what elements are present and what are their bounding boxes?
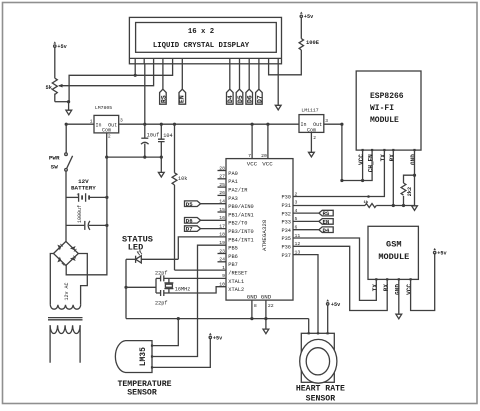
svg-text:100E: 100E (306, 40, 320, 46)
wire P31 RX line with series resistor (293, 205, 365, 207)
capacitor C1 10uf (141, 124, 159, 157)
wire /RESET pin1 (175, 269, 227, 271)
svg-text:+5v: +5v (304, 14, 314, 20)
wiper arrowhead (58, 84, 63, 88)
svg-text:P32: P32 (281, 211, 291, 217)
wire LED to PB4 pin18 (178, 237, 226, 259)
svg-text:8: 8 (254, 303, 257, 309)
wire pot bottom to ground node (55, 101, 69, 103)
capacitor C6 1000uf (66, 205, 107, 230)
svg-text:P34: P34 (281, 228, 291, 234)
wire ESP VCC pin (362, 150, 364, 180)
svg-text:26: 26 (219, 190, 225, 196)
wire LCD RS pin down to tag (162, 64, 164, 89)
svg-text:TX: TX (380, 154, 387, 162)
wire crystal ground branch (126, 286, 156, 288)
svg-text:D5: D5 (237, 95, 244, 103)
wire ESP RX vertical (392, 150, 394, 205)
pin 8 GND wire (251, 300, 253, 319)
net tag D6 (LCD) (246, 89, 254, 104)
wire LED anode down to ground rail (125, 259, 127, 318)
svg-text:P35: P35 (281, 236, 291, 242)
svg-text:2k2: 2k2 (407, 187, 413, 196)
net tag EN (to P33 pin5) (293, 219, 333, 226)
status LED D1 (122, 234, 178, 263)
svg-text:10k: 10k (178, 176, 187, 182)
capacitor C5 22pf (bottom) (155, 290, 167, 306)
svg-text:WI-FI: WI-FI (370, 104, 394, 113)
svg-text:LM35: LM35 (139, 347, 148, 366)
svg-text:+5v: +5v (331, 302, 341, 308)
net tag D4 (to P34 pin6) (293, 227, 333, 234)
svg-text:12v AC: 12v AC (64, 282, 70, 300)
svg-text:27: 27 (219, 174, 225, 180)
wire LCD LED- pin16 down (277, 64, 279, 106)
svg-text:VCC: VCC (406, 284, 413, 295)
svg-text:1000uf: 1000uf (77, 205, 83, 223)
svg-text:LIQUID CRYSTAL DISPLAY: LIQUID CRYSTAL DISPLAY (153, 42, 250, 50)
wire ground rail (bottom) (126, 318, 309, 320)
svg-text:D7: D7 (186, 226, 193, 233)
net tag RS (to P32 pin4) (293, 210, 333, 217)
ESP pin nubs (362, 149, 364, 151)
svg-text:GND: GND (247, 294, 258, 301)
svg-text:PB3/INT0: PB3/INT0 (228, 229, 253, 235)
node 1000uf rail right (105, 224, 108, 227)
node RX tee (392, 204, 395, 207)
svg-text:TX: TX (372, 284, 379, 292)
wire LM1117 Out to ESP vcc rail (324, 124, 372, 180)
svg-text:2: 2 (313, 135, 316, 141)
wire LM1117 Com to ground (310, 132, 312, 152)
wire node to ground (68, 102, 70, 111)
svg-text:VCC: VCC (358, 154, 365, 165)
svg-text:CH_EN: CH_EN (368, 154, 375, 172)
net tag EN (LCD) (179, 89, 186, 104)
net tag D7 (LCD) (256, 89, 264, 104)
wire LM35 pin2 signal to PB5 pin19 (152, 245, 226, 356)
wire com to transformer (66, 157, 107, 275)
svg-text:In: In (96, 123, 102, 129)
ground (GSM) (396, 314, 402, 319)
wire bridge right to transformer (78, 254, 87, 305)
wire ESP GND pin down (414, 150, 416, 205)
svg-text:7: 7 (248, 153, 251, 159)
power +5v (pot) (54, 41, 68, 50)
ground (LM1117) (309, 152, 315, 157)
svg-text:16 x 2: 16 x 2 (188, 28, 214, 36)
svg-text:D6: D6 (247, 95, 254, 103)
potentiometer R1 5k (46, 47, 58, 101)
module U4 ESP8266 WI-FI (356, 71, 421, 172)
wire GSM GND (398, 279, 400, 314)
svg-text:Com: Com (102, 128, 111, 134)
node ESP GND tee (413, 174, 416, 177)
svg-text:24: 24 (219, 257, 225, 263)
right pin labels (281, 191, 300, 258)
svg-text:D4: D4 (323, 227, 330, 234)
svg-text:VCC: VCC (262, 160, 273, 167)
pin 26 PA3 (218, 194, 227, 196)
svg-text:BATTERY: BATTERY (71, 185, 96, 192)
capacitor C4 22pf (top) (155, 271, 167, 282)
microcontroller U1 ATMEGA328 (226, 159, 293, 301)
wire heart sensor gnd pin (308, 319, 310, 334)
node pin8 gnd (250, 317, 253, 320)
svg-text:+5v: +5v (213, 335, 223, 341)
capacitor C2 104 (158, 124, 173, 157)
wire LM35 pin3 to +5v (152, 339, 210, 368)
resistor R3 10k (reset pull-up) (172, 124, 187, 270)
node 3v3 corner (340, 179, 343, 182)
wire LCD EN pin down to tag (181, 64, 183, 89)
svg-text:RX: RX (389, 154, 396, 162)
svg-text:2: 2 (108, 133, 111, 139)
transformer T1 (48, 282, 83, 362)
power +5v (LM35) (209, 333, 223, 342)
svg-text:104: 104 (163, 133, 172, 139)
svg-text:XTAL2: XTAL2 (228, 287, 244, 293)
bridge rectifier BR1 (54, 241, 79, 265)
svg-text:PA2/IR: PA2/IR (228, 188, 248, 194)
wire ESP TX to P30 (293, 150, 384, 196)
svg-text:PB5: PB5 (228, 246, 238, 252)
svg-text:PWR: PWR (49, 155, 60, 162)
node LM35 gnd tee (177, 317, 180, 320)
pin 7 VCC wire (251, 124, 253, 158)
wire common bottom rail (107, 156, 162, 158)
pin 24 PB7 (218, 261, 227, 263)
resistor R5 2k2 (401, 183, 413, 206)
svg-text:PB2/T0: PB2/T0 (228, 221, 247, 227)
pin 28 PA0 (218, 170, 227, 172)
resistor R4 (RX series) (365, 204, 376, 208)
wire GND tee to 2k2 top (404, 175, 415, 183)
module U5 GSM (368, 226, 418, 295)
wire GSM RX to P36 (293, 246, 387, 310)
power +5v (heart sensor) (326, 299, 341, 308)
ground (pin22) (263, 329, 269, 334)
svg-text:PA1: PA1 (228, 179, 238, 185)
net tag D5 (LCD) (236, 89, 244, 104)
core (48, 318, 83, 320)
svg-text:15: 15 (219, 207, 225, 213)
ground (LCD backlight) (275, 105, 281, 110)
wire LCD D4 pin down to tag (229, 64, 231, 89)
svg-text:3: 3 (325, 118, 328, 124)
primary winding (50, 325, 80, 333)
svg-text:P31: P31 (281, 203, 291, 209)
node VSS-H1 junction (134, 74, 137, 77)
wire H1 ground line (RW+VSS to ground) (69, 64, 173, 102)
svg-text:20: 20 (261, 153, 267, 159)
ground (ESP RX net) (412, 206, 418, 211)
wire In node to LM7805 (66, 123, 94, 125)
svg-text:3: 3 (120, 118, 123, 124)
pin 15 PB1/AIN1 (218, 211, 227, 213)
svg-text:RX: RX (383, 284, 390, 292)
resistor R2 100E (299, 18, 320, 50)
svg-text:ATMEGA328: ATMEGA328 (261, 219, 268, 251)
diode bottom-left (58, 257, 61, 262)
node pin22 gnd cross (264, 317, 267, 320)
node crystal-gnd tee (124, 286, 127, 289)
voltage regulator U3 LM1117 (299, 108, 328, 141)
node 2k2 bottom (402, 204, 405, 207)
svg-text:+5v: +5v (57, 44, 67, 50)
diode bars (60, 244, 76, 266)
svg-text:ESP8266: ESP8266 (370, 92, 404, 101)
node LM7805 In junction (65, 123, 68, 126)
node on TX line (367, 195, 370, 198)
diode bottom-right (71, 258, 75, 261)
wire GSM VCC to +5v (411, 254, 435, 311)
pin 23 PB6 (218, 253, 227, 255)
svg-text:RS: RS (160, 95, 167, 103)
svg-text:PB7: PB7 (228, 262, 238, 268)
wire LCD VDD pin2 down to +5 rail (144, 64, 146, 124)
net tag RS (LCD) (160, 89, 168, 104)
node 10uf bottom (143, 156, 146, 159)
wire GSM TX to P35 (293, 238, 376, 300)
svg-text:22: 22 (268, 303, 274, 309)
node VCC pin20 on rail (266, 123, 269, 126)
svg-text:3: 3 (295, 200, 298, 206)
wire LCD VSS pin1 down to H1 (134, 64, 136, 76)
GSM pin nubs (375, 278, 377, 280)
svg-text:RS: RS (323, 210, 330, 217)
net tag D6 (to PB2 pin16) (185, 217, 227, 224)
left pin stubs and labels (218, 165, 254, 293)
svg-text:25: 25 (219, 182, 225, 188)
diode top-right (71, 246, 75, 249)
pin 25 PA2/IR (218, 186, 227, 188)
svg-text:28: 28 (219, 165, 225, 171)
net tag D7 (to PB3 pin17) (185, 226, 227, 233)
node pot-ground junction (67, 100, 70, 103)
svg-text:SENSOR: SENSOR (127, 389, 157, 398)
battery B1 12V (66, 178, 107, 202)
wire switch to battery rail and bridge (65, 171, 67, 241)
svg-text:PB1/AIN1: PB1/AIN1 (228, 212, 253, 218)
LCD module DIS1 16x2 (129, 17, 281, 63)
secondary winding (50, 305, 80, 309)
svg-text:XTAL1: XTAL1 (228, 279, 244, 285)
power switch SW1 PWR (49, 153, 73, 171)
svg-text:EN: EN (179, 95, 186, 103)
svg-text:1: 1 (90, 119, 93, 125)
svg-text:GND: GND (261, 294, 272, 301)
svg-text:MODULE: MODULE (370, 116, 399, 125)
diode top-left (58, 245, 61, 250)
LCD pin stubs (135, 58, 278, 63)
wire LCD LED+ pin15 to 100E resistor (269, 50, 302, 75)
wire XTAL1 line (164, 277, 226, 279)
svg-text:LM7805: LM7805 (95, 105, 112, 111)
wire caps common vertical (155, 278, 157, 293)
wire XTAL2 line (164, 287, 226, 293)
svg-text:23: 23 (219, 248, 225, 254)
wire LCD D7 pin down to tag (258, 64, 260, 89)
svg-text:GSM: GSM (386, 240, 401, 250)
net tag D4 (LCD) (227, 89, 235, 104)
wire heart sensor vcc pin (327, 305, 329, 333)
temperature sensor U6 LM35 (115, 341, 171, 398)
svg-text:PB6: PB6 (228, 254, 238, 260)
node 104 on rail (160, 123, 163, 126)
pin 27 PA1 (218, 178, 227, 180)
svg-text:HEART RATE: HEART RATE (296, 384, 345, 393)
svg-text:22pf: 22pf (155, 271, 167, 277)
svg-text:D4: D4 (227, 95, 234, 103)
svg-text:GND: GND (394, 284, 401, 295)
wire bridge left to transformer (50, 254, 53, 305)
svg-text:+5v: +5v (437, 251, 447, 257)
node VCC pin7 on rail (251, 123, 254, 126)
voltage regulator U2 LM7805 (90, 105, 123, 140)
svg-text:EN: EN (323, 219, 330, 226)
wire 104 bottom to ground (160, 157, 162, 172)
node VDD/10uf on rail (143, 123, 146, 126)
svg-text:2: 2 (295, 191, 298, 197)
pin 20 VCC wire (267, 124, 269, 158)
svg-text:P37: P37 (281, 253, 291, 259)
svg-text:VCC: VCC (247, 160, 258, 167)
wire +5 rail LM7805 Out to LM1117 In (119, 123, 299, 125)
wire heart sensor signal to P37 (293, 255, 318, 334)
power +5v (GSM) (433, 248, 447, 257)
power +5v (top, 100E) (300, 12, 314, 21)
svg-text:SENSOR: SENSOR (306, 395, 336, 404)
node 104 bottom (160, 156, 163, 159)
svg-text:D5: D5 (186, 201, 193, 208)
svg-text:D6: D6 (186, 217, 193, 224)
svg-text:PB0/AIN0: PB0/AIN0 (228, 204, 253, 210)
svg-text:LM1117: LM1117 (301, 108, 318, 114)
crystal X1 16MHz (164, 278, 190, 293)
svg-text:5k: 5k (46, 85, 53, 91)
svg-text:16MHz: 16MHz (175, 286, 191, 292)
node LM1117 out (340, 123, 343, 126)
wire LM35 pin1 to ground rail (152, 319, 178, 346)
svg-text:SW: SW (51, 164, 59, 171)
svg-text:PB4/INT1: PB4/INT1 (228, 237, 253, 243)
svg-text:GND: GND (410, 154, 417, 165)
node ESP VCC tee (361, 179, 364, 182)
wire switch feed from In node (65, 124, 67, 153)
svg-text:MODULE: MODULE (378, 252, 409, 262)
wire LM7805 Com down (106, 133, 108, 157)
node 10k on rail (173, 123, 176, 126)
pin 22 GND wire (265, 300, 267, 329)
node battery rail right (105, 196, 108, 199)
net tag D5 (to PB0 pin14) (185, 201, 227, 208)
heart rate sensor U7 (296, 332, 345, 403)
svg-text:22pf: 22pf (155, 300, 167, 306)
wire H2 contrast line (V0 to pot wiper) (59, 64, 154, 86)
ground (pot / LCD VSS) (66, 110, 72, 115)
ground (filter caps) (158, 172, 164, 177)
wire LCD D5 pin down to tag (239, 64, 241, 89)
svg-text:In: In (301, 122, 307, 128)
svg-text:PA0: PA0 (228, 171, 238, 177)
svg-text:D7: D7 (256, 95, 263, 103)
svg-text:10uf: 10uf (147, 133, 159, 139)
svg-text:P30: P30 (281, 195, 291, 201)
svg-text:P33: P33 (281, 220, 291, 226)
wire LCD D6 pin down to tag (248, 64, 250, 89)
svg-text:PA3: PA3 (228, 196, 238, 202)
node com rail left (105, 156, 108, 159)
svg-text:P36: P36 (281, 245, 291, 251)
svg-text:/RESET: /RESET (228, 271, 247, 277)
